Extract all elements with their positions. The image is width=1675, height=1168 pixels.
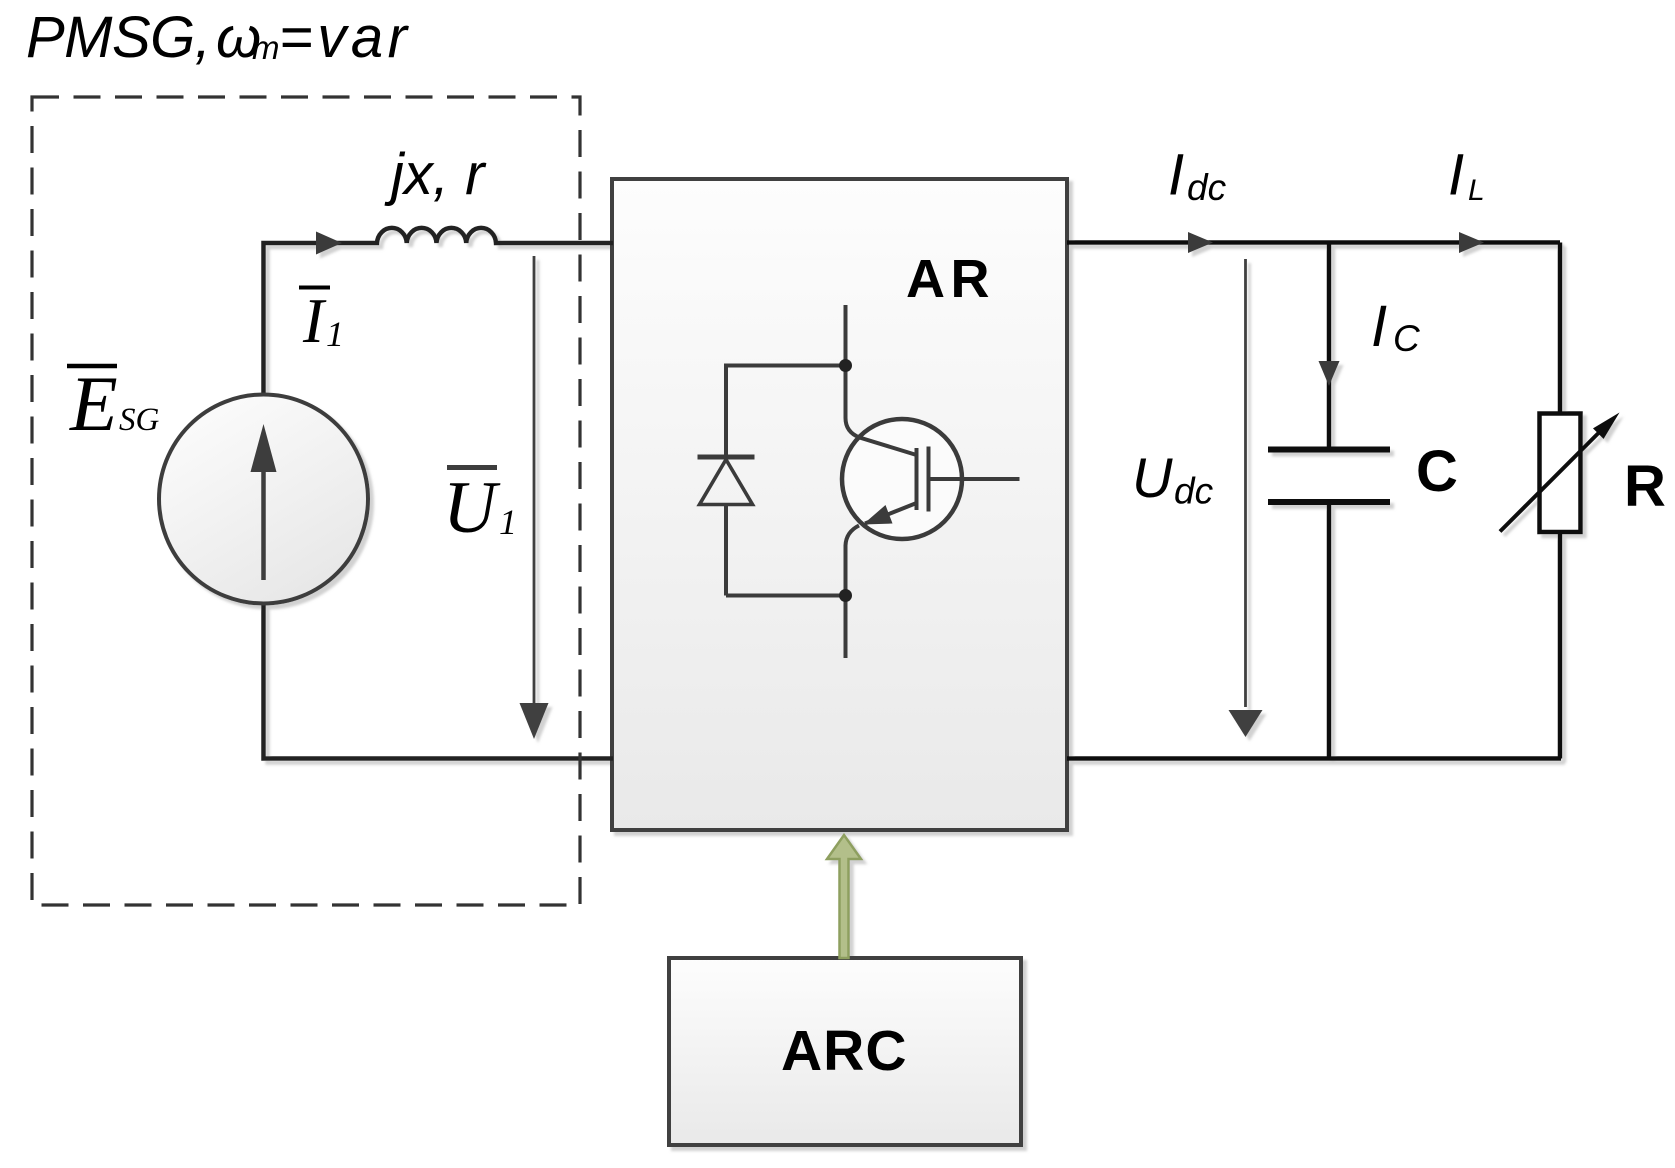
svg-text:I: I xyxy=(302,286,327,356)
svg-text:R: R xyxy=(1624,454,1666,519)
svg-text:m: m xyxy=(252,29,280,66)
svg-text:C: C xyxy=(1416,439,1458,504)
svg-text:jx, r: jx, r xyxy=(384,142,487,207)
svg-text:I: I xyxy=(1168,143,1184,208)
svg-text:I: I xyxy=(1371,294,1387,359)
svg-text:I: I xyxy=(1448,143,1464,208)
svg-text:dc: dc xyxy=(1187,167,1227,208)
svg-text:PMSG,: PMSG, xyxy=(26,5,210,70)
svg-text:L: L xyxy=(1468,174,1485,207)
svg-text:AR: AR xyxy=(906,249,995,309)
svg-text:=var: =var xyxy=(279,5,411,70)
svg-text:C: C xyxy=(1393,318,1420,359)
svg-text:dc: dc xyxy=(1174,471,1214,512)
svg-text:1: 1 xyxy=(326,314,344,354)
svg-text:1: 1 xyxy=(499,502,517,542)
svg-text:SG: SG xyxy=(119,402,160,438)
svg-text:E: E xyxy=(69,360,118,447)
svg-text:ARC: ARC xyxy=(781,1019,908,1083)
svg-text:U: U xyxy=(443,467,501,549)
svg-text:U: U xyxy=(1132,446,1173,509)
